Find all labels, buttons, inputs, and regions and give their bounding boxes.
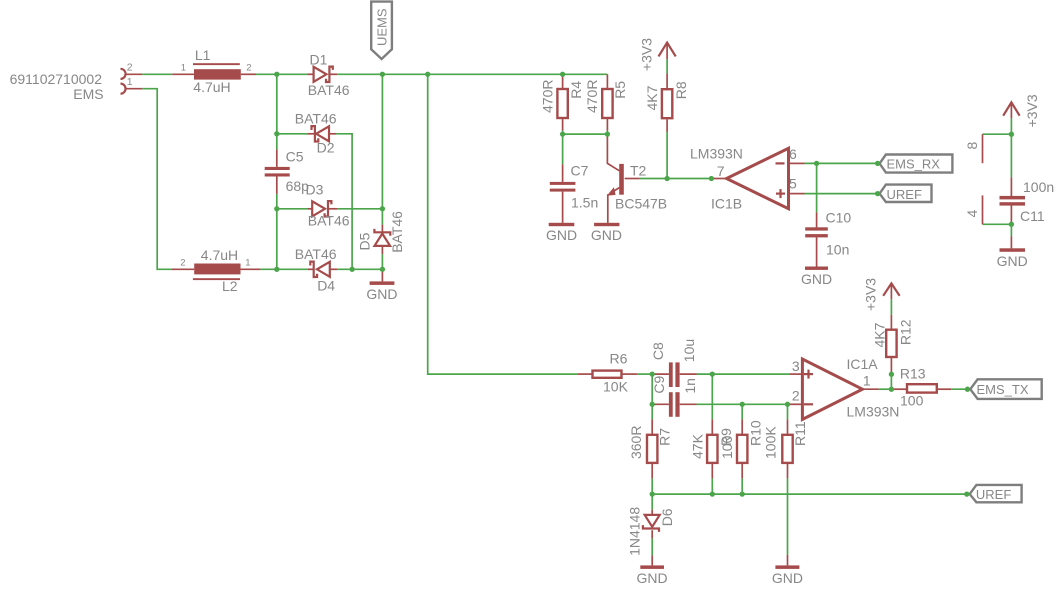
svg-text:T2: T2 xyxy=(630,163,647,179)
svg-text:L2: L2 xyxy=(222,278,238,294)
junction node D2 row xyxy=(274,131,279,136)
svg-text:8: 8 xyxy=(964,142,980,150)
wire R5 bottom stub xyxy=(606,131,608,135)
resistor R9 top lead xyxy=(711,419,713,435)
svg-text:C5: C5 xyxy=(286,148,304,164)
svg-text:BC547B: BC547B xyxy=(615,196,667,212)
diode D4 triangle xyxy=(317,262,330,277)
resistor R12 box xyxy=(886,330,896,357)
diode D3 schottky bar xyxy=(325,201,332,216)
wire R8 to base node xyxy=(666,132,668,179)
transistor T2 collector xyxy=(607,134,619,171)
connector X1 pin 2 arc xyxy=(121,69,126,79)
inductor L1 body xyxy=(194,69,241,79)
capacitor C11 bottom lead xyxy=(1010,206,1012,225)
wire C11 bottom to GND xyxy=(1010,224,1012,236)
wire node to R11 xyxy=(787,404,789,419)
flag UREF bottom xyxy=(970,485,1022,502)
svg-text:C7: C7 xyxy=(571,162,589,178)
svg-text:D6: D6 xyxy=(659,508,675,526)
inductor L1 top bar xyxy=(193,63,240,65)
wire R4 bottom stub xyxy=(562,131,564,135)
wire C8 to pin3 xyxy=(697,373,790,375)
op-amp IC1B plus mark xyxy=(776,193,785,195)
junction nodes T2 base xyxy=(664,176,669,181)
svg-text:UREF: UREF xyxy=(976,487,1011,502)
resistor R7 box xyxy=(647,435,657,463)
junction nodes C8 row xyxy=(650,371,655,376)
wire C11 top xyxy=(1010,134,1012,177)
ground below C11 bar xyxy=(1000,248,1026,252)
inductor L2 body xyxy=(194,264,240,275)
op-amp IC1A plus mark xyxy=(804,373,813,375)
wire node to D6 xyxy=(651,494,653,510)
wire T2 base to IC1B xyxy=(640,178,712,180)
resistor R12 top lead xyxy=(890,315,892,330)
wire pin8 branch xyxy=(983,133,1012,135)
svg-text:4K7: 4K7 xyxy=(644,85,660,110)
diode D4 leads xyxy=(307,268,313,270)
svg-text:R8: R8 xyxy=(673,81,689,99)
capacitor C5 plates xyxy=(265,167,290,170)
wire D3 to D5 column xyxy=(337,208,382,210)
resistor R6 right lead xyxy=(622,373,638,375)
diode D2 triangle xyxy=(316,126,329,141)
inductor L1 lead right xyxy=(241,73,256,75)
svg-text:4.7uH: 4.7uH xyxy=(193,79,230,95)
transistor T2 emitter xyxy=(610,188,619,194)
resistor R11 box xyxy=(782,435,792,463)
resistor R10 box xyxy=(737,435,747,463)
wire R12 to output node xyxy=(890,374,892,389)
op-amp IC1A pin2 lead xyxy=(789,403,802,405)
wire +3V3 to R12 xyxy=(890,299,892,315)
power +3V3 stem above R8 xyxy=(666,43,668,59)
junction node EMS_TX xyxy=(965,387,970,392)
resistor R11 bottom lead xyxy=(787,463,789,479)
resistor R5 top lead xyxy=(606,74,608,89)
svg-text:GND: GND xyxy=(772,570,803,586)
svg-text:360R: 360R xyxy=(628,426,644,459)
junction node EMS_RX xyxy=(875,161,880,166)
op-amp IC1B pin6 lead xyxy=(789,162,805,164)
svg-text:4.7uH: 4.7uH xyxy=(201,247,238,263)
svg-text:C8: C8 xyxy=(650,342,666,360)
flag EMS_RX xyxy=(880,155,953,173)
power +3V3 arrow above R8 xyxy=(659,43,676,57)
junction nodes C9 row xyxy=(650,402,655,407)
inductor L2 lead right xyxy=(241,268,261,270)
svg-text:D5: D5 xyxy=(357,232,373,250)
svg-text:D3: D3 xyxy=(306,182,324,198)
wire R6 to C8 node xyxy=(637,373,652,375)
junction nodes C11 xyxy=(1009,132,1014,137)
ground below D6 bar xyxy=(640,565,664,569)
resistor R13 left lead xyxy=(891,388,907,390)
svg-text:C9: C9 xyxy=(651,375,667,393)
capacitor C11 plates xyxy=(1000,196,1026,200)
wire L1 to D1 xyxy=(256,73,307,75)
ground below C10 bar xyxy=(805,267,828,270)
resistor R9 bottom lead xyxy=(711,463,713,479)
svg-text:BAT46: BAT46 xyxy=(308,82,350,98)
ground below T2 bar xyxy=(594,223,619,226)
diode D1 triangle xyxy=(314,67,327,82)
IC1 pin4 stub xyxy=(982,195,984,224)
wire D5 to D4 row xyxy=(381,254,383,269)
capacitor C10 bottom lead xyxy=(816,237,818,266)
svg-text:GND: GND xyxy=(637,570,668,586)
resistor R13 box xyxy=(907,384,937,392)
wire to D3 xyxy=(277,208,308,210)
svg-text:IC1B: IC1B xyxy=(711,196,742,212)
svg-text:GND: GND xyxy=(801,271,832,287)
resistor R12 bottom lead xyxy=(890,357,892,374)
wire D6 to GND xyxy=(651,538,653,555)
power +3V3 arrow above C11 xyxy=(1003,102,1019,115)
capacitor C7 top lead xyxy=(562,164,564,182)
svg-text:GND: GND xyxy=(366,286,397,302)
ground below D5 lead xyxy=(381,269,383,281)
diode D5 schottky bar xyxy=(374,229,390,236)
svg-text:2: 2 xyxy=(127,62,133,74)
svg-text:100: 100 xyxy=(719,435,735,459)
junction nodes bottom rail xyxy=(650,491,655,496)
wire R11 to GND xyxy=(787,478,789,555)
svg-text:IC1A: IC1A xyxy=(847,356,879,372)
svg-text:BAT46: BAT46 xyxy=(308,212,350,228)
svg-text:+3V3: +3V3 xyxy=(862,278,878,311)
capacitor C9 plates xyxy=(669,392,673,417)
svg-text:GND: GND xyxy=(546,227,577,243)
svg-text:R11: R11 xyxy=(792,421,808,446)
svg-text:+3V3: +3V3 xyxy=(639,38,655,71)
diode D6 zener bar xyxy=(643,525,659,532)
resistor R10 top lead xyxy=(741,419,743,435)
capacitor C8 left lead xyxy=(652,373,669,375)
capacitor C5 bottom lead xyxy=(276,177,278,194)
diode D6 top lead xyxy=(651,510,653,515)
svg-text:47K: 47K xyxy=(689,433,705,459)
resistor R8 top lead xyxy=(666,74,668,90)
wire D4 to GND node xyxy=(337,268,382,270)
op-amp IC1B pin5 lead xyxy=(789,193,805,195)
svg-text:LM393N: LM393N xyxy=(847,403,900,419)
diode D3 leads xyxy=(307,208,312,210)
svg-text:R6: R6 xyxy=(610,350,628,366)
connector X1 pin 1 arc xyxy=(121,84,126,94)
IC1 pin8 stub xyxy=(982,134,984,163)
svg-text:6: 6 xyxy=(789,146,797,162)
resistor R8 box xyxy=(662,89,672,118)
resistor R4 box xyxy=(557,89,567,118)
wire node to R9 xyxy=(711,374,713,419)
transistor T2 emitter lead xyxy=(607,194,609,223)
svg-text:EMS_TX: EMS_TX xyxy=(977,382,1029,397)
capacitor C8 right lead xyxy=(680,373,697,375)
wire D2 down to D4 row xyxy=(336,134,352,269)
wire +3V3 to R8 xyxy=(666,59,668,73)
svg-text:D1: D1 xyxy=(310,51,328,67)
op-amp IC1B output lead xyxy=(711,178,726,180)
resistor R5 bottom lead xyxy=(606,118,608,130)
diode D2 leads xyxy=(307,133,315,135)
diode D1 schottky bar xyxy=(326,67,333,82)
wire C9 to pin2 xyxy=(697,403,790,405)
svg-text:1N4148: 1N4148 xyxy=(627,507,643,556)
svg-text:1: 1 xyxy=(181,63,186,74)
junction nodes D3 row xyxy=(274,206,279,211)
wire node to R10 xyxy=(741,404,743,419)
op-amp IC1B triangle xyxy=(727,148,789,208)
resistor R6 left lead xyxy=(577,373,592,375)
wire R7 to bottom rail xyxy=(651,478,653,494)
svg-text:2: 2 xyxy=(180,258,185,269)
ground below D6 lead xyxy=(651,555,653,565)
resistor R13 right lead xyxy=(937,388,951,390)
svg-text:4K7: 4K7 xyxy=(871,322,887,347)
svg-text:R13: R13 xyxy=(900,365,926,381)
wire D3 row to D5 xyxy=(381,209,383,225)
resistor R8 bottom lead xyxy=(666,119,668,131)
svg-text:C11: C11 xyxy=(1020,208,1045,224)
wire left vertical upper xyxy=(276,74,278,149)
svg-text:5: 5 xyxy=(789,175,797,191)
wire node to R7 xyxy=(651,404,653,419)
wire R4 to R5 row xyxy=(563,133,608,135)
power +3V3 stem above C11 xyxy=(1010,103,1012,119)
wire pin2 to L1 xyxy=(142,73,172,75)
diode D6 triangle xyxy=(645,515,660,527)
wire to D2 xyxy=(277,133,308,135)
op-amp IC1A output lead xyxy=(862,388,878,390)
inductor L2 bottom bar xyxy=(193,278,240,280)
wire pin4 branch xyxy=(983,223,1012,225)
capacitor C7 plates xyxy=(550,182,576,185)
wire R13 to EMS_TX xyxy=(951,388,967,390)
wire R10 to bottom rail xyxy=(741,478,743,494)
svg-text:R7: R7 xyxy=(657,428,673,446)
svg-text:10n: 10n xyxy=(826,241,849,257)
ground below R11 bar xyxy=(775,565,799,569)
op-amp IC1B minus mark xyxy=(776,162,785,164)
svg-text:10K: 10K xyxy=(603,378,629,394)
svg-text:BAT46: BAT46 xyxy=(295,246,337,262)
junction node UREF top xyxy=(875,191,880,196)
svg-text:LM393N: LM393N xyxy=(690,145,743,161)
op-amp IC1A pin3 lead xyxy=(789,373,802,375)
svg-text:4: 4 xyxy=(964,210,980,218)
svg-text:C10: C10 xyxy=(826,209,852,225)
wire left vertical lower xyxy=(276,194,278,269)
wire pin1 down to L2 xyxy=(142,89,171,270)
resistor R9 box xyxy=(707,435,717,463)
resistor R11 top lead xyxy=(787,419,789,435)
svg-text:L1: L1 xyxy=(195,47,211,63)
power +3V3 stem above R12 xyxy=(890,284,892,299)
diode D3 triangle xyxy=(312,201,325,216)
wire top rail down to R6 xyxy=(428,74,578,374)
resistor R6 box xyxy=(593,371,622,378)
connector X1 pin 2 lead xyxy=(126,73,143,75)
flag EMS_TX xyxy=(970,379,1041,399)
svg-text:R10: R10 xyxy=(747,420,763,446)
transistor T2 bar xyxy=(619,164,624,195)
svg-text:R12: R12 xyxy=(897,319,913,345)
svg-text:GND: GND xyxy=(591,227,622,243)
svg-text:2: 2 xyxy=(246,63,251,74)
ground below C11 lead xyxy=(1010,236,1012,248)
resistor R4 bottom lead xyxy=(562,118,564,130)
op-amp IC1A minus mark xyxy=(804,403,813,405)
op-amp IC1A triangle xyxy=(802,359,862,419)
svg-text:R4: R4 xyxy=(568,81,584,99)
junction node UREF bottom xyxy=(964,491,969,496)
capacitor C7 bottom lead xyxy=(562,192,564,223)
wire L2 to D4 xyxy=(260,268,307,270)
diode D6 bottom lead xyxy=(651,530,653,538)
svg-text:470R: 470R xyxy=(540,80,556,113)
wire bottom rail to UREF xyxy=(652,493,967,495)
svg-text:691102710002: 691102710002 xyxy=(10,71,103,87)
svg-text:1: 1 xyxy=(863,373,871,389)
svg-text:EMS: EMS xyxy=(73,86,103,102)
junction nodes R4 R5 xyxy=(560,131,565,136)
ground below C7 bar xyxy=(549,223,575,226)
wire top rail D1 to R5 xyxy=(337,73,607,75)
svg-text:100: 100 xyxy=(900,393,924,409)
wire D5 column vertical xyxy=(381,74,383,209)
transistor T2 base lead xyxy=(625,178,640,180)
svg-text:BAT46: BAT46 xyxy=(389,211,405,253)
svg-text:470R: 470R xyxy=(584,80,600,113)
diode D5 triangle xyxy=(375,234,391,246)
svg-text:1n: 1n xyxy=(682,378,698,394)
wire pin6 to EMS_RX xyxy=(805,162,878,164)
wire IC1A output xyxy=(879,388,892,390)
ground below R11 lead xyxy=(787,555,789,566)
power +3V3 arrow above R12 xyxy=(883,283,899,295)
wire pin6 node to C10 xyxy=(816,163,818,212)
svg-text:2: 2 xyxy=(792,388,800,404)
wire pin5 to UREF xyxy=(805,193,878,195)
resistor R4 top lead xyxy=(562,74,564,89)
inductor L1 lead left xyxy=(172,73,194,75)
svg-text:D2: D2 xyxy=(317,140,335,156)
svg-text:100n: 100n xyxy=(1023,179,1054,195)
junction node pin6 xyxy=(814,161,819,166)
svg-text:+3V3: +3V3 xyxy=(1024,94,1040,127)
capacitor C10 top lead xyxy=(816,212,818,227)
resistor R7 top lead xyxy=(651,419,653,435)
inductor L2 lead left xyxy=(171,268,194,270)
svg-text:7: 7 xyxy=(717,163,725,179)
svg-text:BAT46: BAT46 xyxy=(295,110,337,126)
flag UEMS xyxy=(371,2,392,59)
transistor T2 emitter arrow xyxy=(607,187,616,196)
capacitor C5 top lead xyxy=(276,150,278,167)
svg-text:UEMS: UEMS xyxy=(374,8,389,46)
svg-text:EMS_RX: EMS_RX xyxy=(887,157,941,172)
capacitor C9 right lead xyxy=(680,403,697,405)
connector X1 pin 1 lead xyxy=(126,88,143,90)
resistor R10 bottom lead xyxy=(741,463,743,479)
wire to C7 xyxy=(562,134,564,164)
junction nodes top rail xyxy=(274,72,279,77)
wire R9 to bottom rail xyxy=(711,478,713,494)
diode D1 leads xyxy=(307,73,313,75)
capacitor C8 plates xyxy=(669,362,673,387)
diode D5 leads xyxy=(381,225,383,233)
svg-text:1: 1 xyxy=(127,76,133,88)
svg-text:1.5n: 1.5n xyxy=(571,194,598,210)
resistor R5 box xyxy=(602,89,612,118)
wire C8 node to C9 node xyxy=(651,374,653,404)
capacitor C11 top lead xyxy=(1010,177,1012,196)
svg-text:UREF: UREF xyxy=(887,187,922,202)
svg-text:100K: 100K xyxy=(763,426,779,459)
diode D2 schottky bar xyxy=(312,126,319,141)
flag UREF top xyxy=(880,185,932,202)
ground below D5 bar xyxy=(370,281,395,285)
diode D4 schottky bar xyxy=(310,262,317,277)
svg-text:3: 3 xyxy=(792,358,800,374)
junction nodes D4 row xyxy=(274,267,279,272)
svg-text:D4: D4 xyxy=(317,277,335,293)
svg-text:1: 1 xyxy=(245,258,250,269)
resistor R7 bottom lead xyxy=(651,463,653,479)
capacitor C9 left lead xyxy=(652,403,669,405)
wire +3V3 to C11 node xyxy=(1010,118,1012,134)
svg-text:R5: R5 xyxy=(612,81,628,99)
svg-text:GND: GND xyxy=(997,253,1028,269)
capacitor C10 plates xyxy=(805,227,828,230)
junction nodes R12 output xyxy=(889,372,894,377)
svg-text:10u: 10u xyxy=(681,339,697,362)
